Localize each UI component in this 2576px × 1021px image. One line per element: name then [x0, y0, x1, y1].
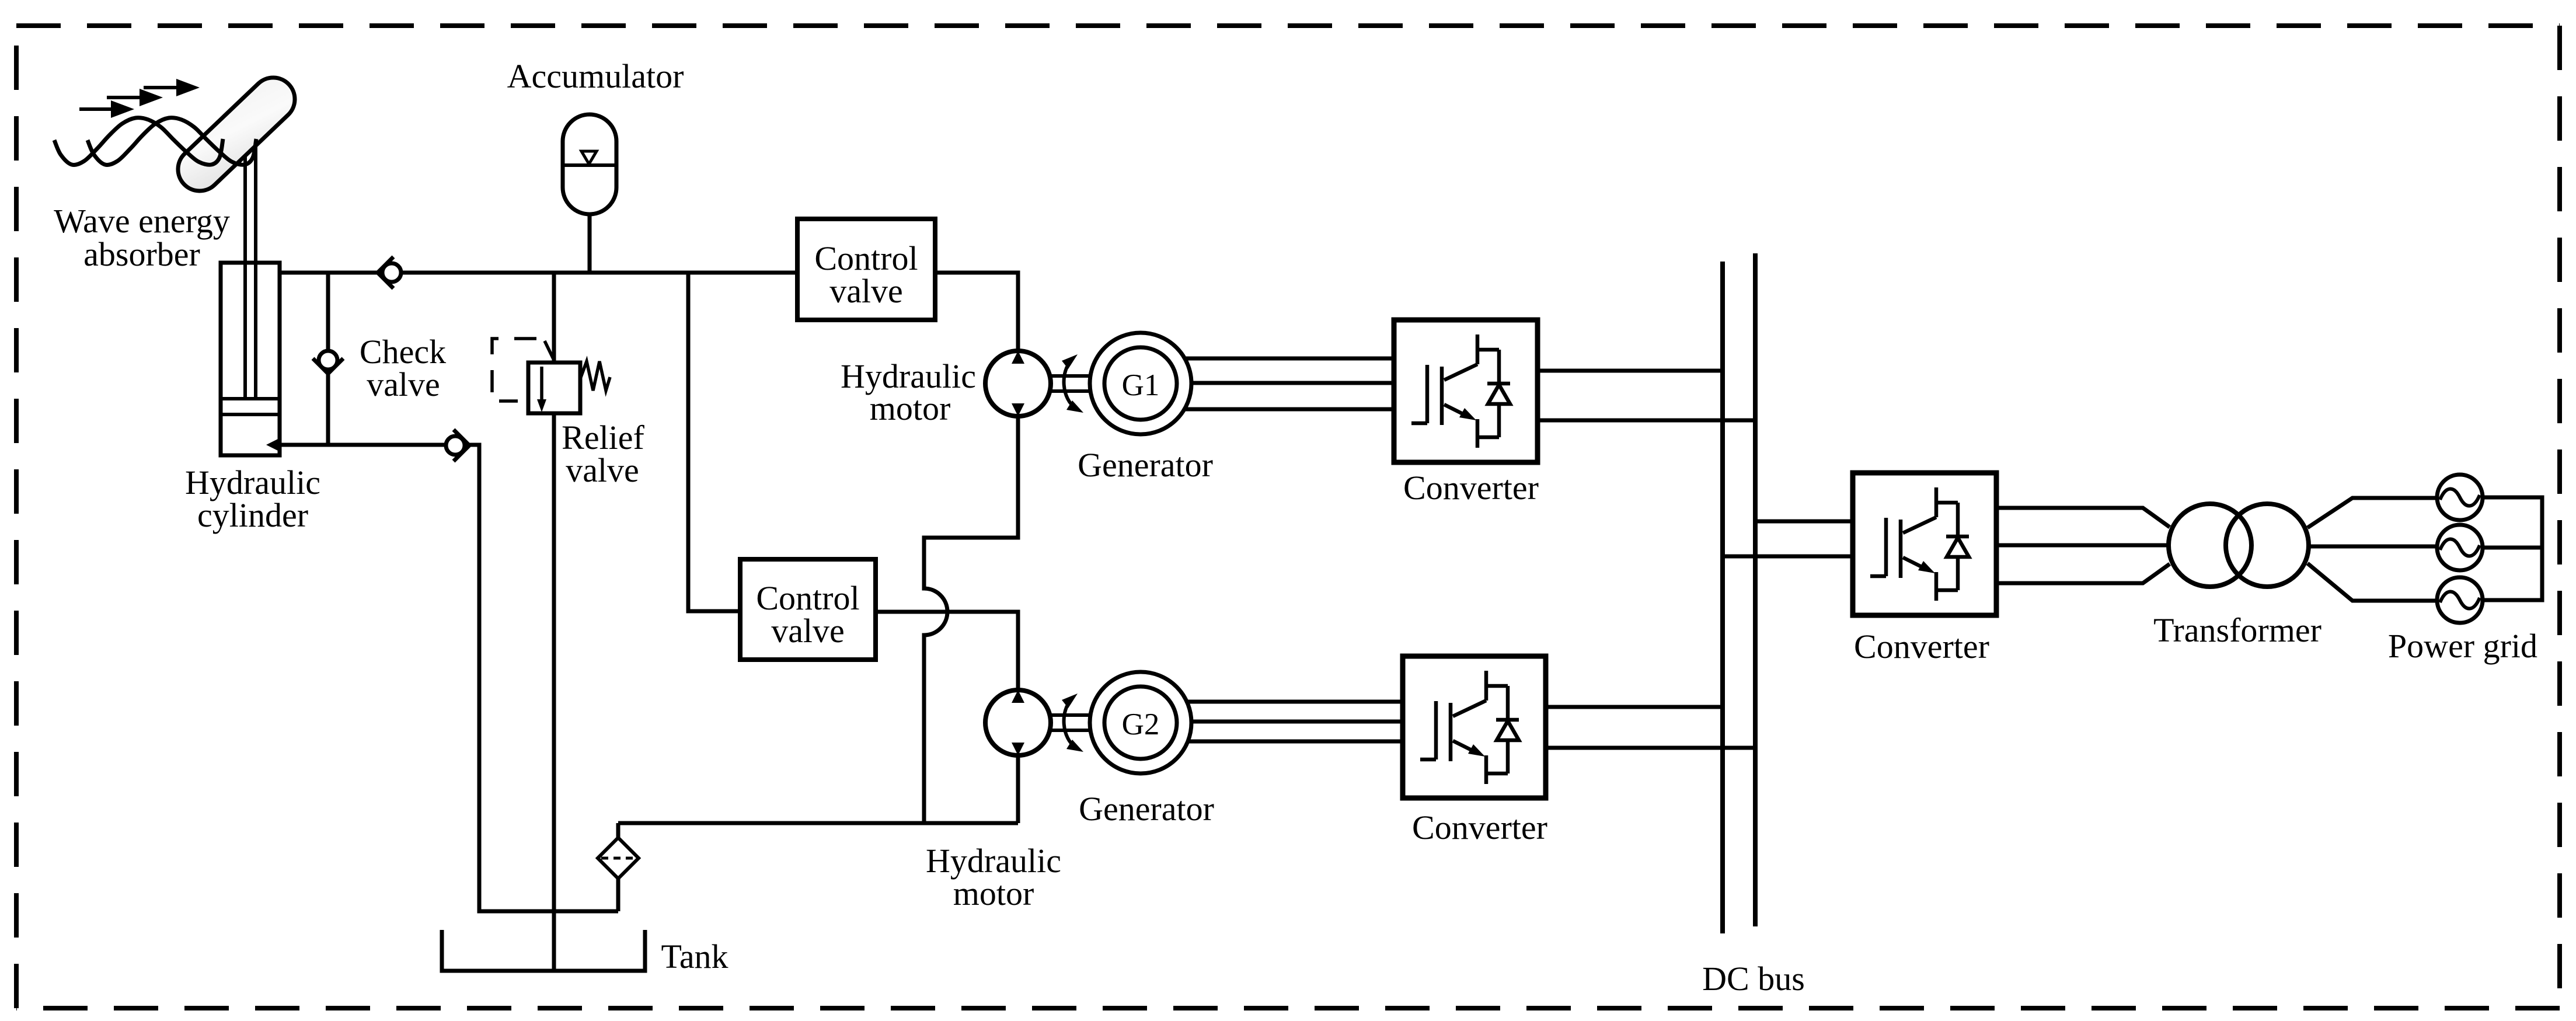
grid converter	[1853, 473, 1996, 615]
power grid source 2	[2437, 525, 2483, 570]
converter 1	[1394, 320, 1538, 462]
wires: DC bus to grid converter	[1723, 521, 1853, 556]
svg-text:G2: G2	[1122, 708, 1160, 741]
wire: motor 2 return	[1016, 755, 1020, 823]
hydraulic motor 2	[985, 690, 1051, 755]
svg-text:Wave energy: Wave energy	[54, 202, 230, 240]
filter	[598, 838, 639, 879]
wire: main supply line	[280, 271, 797, 275]
piston rod	[245, 146, 256, 399]
svg-text:Transformer: Transformer	[2153, 611, 2321, 649]
wave curve 1	[54, 118, 223, 165]
tank	[442, 930, 645, 971]
wave energy absorber float	[169, 69, 304, 200]
wires: power grid right bus	[2483, 497, 2542, 600]
svg-text:Converter: Converter	[1412, 809, 1547, 846]
control valve 1	[797, 219, 935, 320]
svg-text:Generator: Generator	[1079, 790, 1214, 828]
wave arrow 1	[79, 100, 134, 118]
check valve on supply line	[378, 257, 401, 288]
DC bus bars	[1723, 253, 1755, 933]
wave arrow 2	[107, 89, 163, 106]
power grid source 3	[2437, 577, 2483, 623]
wires: transformer to power grid	[2307, 498, 2438, 601]
wire: control valve 1 to motor 1	[935, 273, 1018, 351]
converter 2	[1403, 656, 1546, 798]
control valve 2	[740, 559, 876, 660]
3-phase lines G1 to converter 1	[1184, 358, 1395, 409]
svg-text:cylinder: cylinder	[197, 496, 308, 534]
rotation arrow 2	[1062, 694, 1083, 752]
generator G1	[1090, 333, 1191, 434]
svg-text:motor: motor	[870, 389, 951, 427]
wires: grid converter to transformer	[1996, 508, 2170, 583]
wire: tank return line	[618, 821, 1018, 825]
wires: converter 2 to DC bus	[1546, 707, 1755, 748]
shaft motor2-G2	[1050, 715, 1096, 730]
svg-text:valve: valve	[367, 365, 440, 403]
wave curve 2	[88, 118, 256, 165]
shaft motor1-G1	[1050, 376, 1096, 391]
transformer	[2169, 504, 2309, 587]
svg-text:Power grid: Power grid	[2388, 627, 2537, 665]
wire: feed to control valve 2	[688, 273, 740, 611]
svg-text:Generator: Generator	[1078, 446, 1213, 484]
check valve on vertical branch	[313, 351, 343, 374]
rotation arrow 1	[1062, 354, 1083, 413]
accumulator stem wire	[588, 214, 592, 273]
svg-text:Accumulator: Accumulator	[507, 57, 684, 95]
power grid source 1	[2437, 475, 2483, 520]
wire: cylinder bottom port line	[280, 445, 618, 911]
wire: motor 1 return with hop	[924, 416, 1018, 823]
svg-text:absorber: absorber	[83, 235, 200, 273]
hydraulic motor 1	[985, 351, 1051, 416]
wire: relief valve branch	[552, 273, 556, 969]
svg-text:motor: motor	[953, 874, 1034, 912]
wires: converter 1 to DC bus	[1538, 371, 1755, 420]
svg-text:valve: valve	[771, 612, 845, 650]
generator G2	[1090, 672, 1191, 773]
relief valve	[492, 339, 610, 413]
wire: check valve branch	[326, 273, 330, 445]
svg-text:Tank: Tank	[661, 938, 728, 975]
check valve on bottom line	[446, 430, 469, 461]
svg-text:G1: G1	[1122, 368, 1160, 402]
svg-text:Converter: Converter	[1403, 469, 1539, 507]
dashed figure border	[16, 23, 2560, 28]
svg-text:valve: valve	[566, 451, 639, 489]
svg-text:Converter: Converter	[1854, 628, 1989, 665]
wave arrow 3	[144, 79, 200, 96]
hydraulic cylinder body	[221, 263, 280, 455]
wire: filter stubs	[616, 823, 621, 911]
wire: control valve 2 to motor 2	[876, 612, 1018, 691]
accumulator	[563, 114, 616, 214]
svg-text:valve: valve	[829, 272, 903, 310]
cylinder port arrow	[266, 437, 281, 452]
3-phase lines G2 to converter 2	[1187, 702, 1403, 741]
svg-text:DC bus: DC bus	[1702, 960, 1805, 998]
piston	[222, 399, 278, 414]
